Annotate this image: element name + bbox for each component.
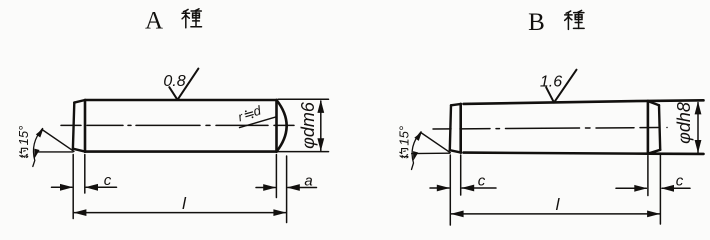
pin A left chamfer top slant — [74, 100, 85, 103]
svg-text:1.6: 1.6 — [540, 73, 562, 90]
svg-text:φdh8: φdh8 — [674, 102, 694, 144]
roughness symbol 0.8 on pin A — [169, 69, 198, 100]
label phi d m6 rotated — [298, 101, 318, 149]
dimension phi-d-h8 (B): dim line — [697, 103, 699, 153]
dimension a (A) — [256, 187, 275, 189]
dimension phi-d-m6 (A): dim line — [320, 101, 322, 151]
pin B centerline — [433, 128, 667, 130]
pin A left end face — [73, 103, 74, 149]
title A kanji 種 — [182, 9, 201, 28]
pin A top edge — [85, 99, 277, 102]
dimension phi-d-m6 (A): top extension — [278, 98, 329, 100]
svg-text:r: r — [237, 110, 246, 125]
svg-text:d: d — [251, 102, 263, 119]
pin A bottom edge — [85, 150, 277, 153]
label about 15 deg (A), rotated — [16, 126, 31, 146]
dimension c right (B) — [616, 187, 646, 189]
pin B top edge + right extension — [464, 100, 704, 104]
pin B right junction line — [647, 101, 650, 154]
pin A centerline — [61, 124, 294, 126]
chamfer angle dim B: top arrow — [414, 130, 424, 141]
svg-text:15°: 15° — [16, 126, 31, 146]
svg-text:B: B — [528, 9, 545, 36]
svg-text:c: c — [676, 173, 684, 190]
chamfer angle dim A: arc — [33, 129, 43, 167]
chamfer angle dim B: arc — [412, 132, 422, 170]
label about 15 deg (B), rotated — [396, 126, 411, 146]
dimension c left (B) — [430, 187, 449, 189]
svg-text:15°: 15° — [396, 126, 411, 146]
pin A left chamfer bottom slant — [73, 149, 85, 152]
chamfer angle dim B: horizontal extension — [412, 152, 450, 154]
chamfer angle dim A: horizontal extension — [36, 151, 73, 153]
extension line below A right face — [275, 155, 277, 198]
title B kanji 種 — [565, 10, 584, 29]
kanji 約 (A) tiny, rotated — [20, 148, 28, 157]
pin B left chamfer top slant — [451, 104, 461, 105]
pin B left chamfer bottom slant — [450, 150, 461, 152]
extension line below B left junction — [460, 155, 462, 195]
pin B right chamfer bottom slant — [648, 150, 660, 154]
chamfer angle dim A: slant extension line — [42, 130, 74, 152]
roughness symbol 1.6 on pin B — [546, 70, 576, 103]
chamfer angle dim B: bottom arrow — [411, 151, 419, 162]
svg-text:A: A — [145, 8, 163, 35]
dimension l (A) — [74, 212, 286, 214]
extension line below A left junction — [84, 155, 86, 194]
pin B left junction line — [459, 104, 462, 153]
pin B left end face — [450, 105, 451, 150]
svg-text:0.8: 0.8 — [163, 73, 185, 90]
svg-text:c: c — [104, 172, 112, 189]
chamfer angle dim B: slant extension line — [422, 133, 451, 153]
leader line r=d — [240, 117, 277, 128]
pin B right end face — [659, 105, 660, 150]
extension line below A left face — [72, 155, 74, 219]
kanji 約 (B) tiny, rotated — [400, 149, 408, 158]
extension line below B right junction — [647, 156, 649, 196]
svg-text:l: l — [556, 195, 561, 214]
label r approx d with leader — [236, 102, 263, 124]
label phi d h8 rotated — [674, 102, 694, 144]
extension line below B right face — [659, 155, 661, 224]
dimension c (A) — [52, 186, 73, 188]
svg-text:c: c — [478, 173, 486, 190]
dimension l (B) — [451, 213, 660, 215]
svg-text:a: a — [304, 173, 312, 190]
pin A right end face — [275, 100, 278, 152]
svg-text:φdm6: φdm6 — [298, 101, 318, 149]
pin B bottom edge + right extension — [464, 153, 704, 154]
dimension phi-d-m6 (A): bottom extension — [278, 151, 329, 153]
chamfer angle dim A: bottom arrow — [32, 149, 40, 160]
chamfer angle dim A: top arrow — [36, 127, 46, 138]
pin B right chamfer top slant — [648, 101, 659, 105]
extension line below B left face — [449, 155, 451, 225]
pin A spherical end arc r=d — [277, 100, 287, 152]
svg-text:l: l — [182, 194, 187, 213]
pin A chamfer junction line — [84, 100, 87, 152]
extension line below A arc apex — [286, 156, 288, 223]
